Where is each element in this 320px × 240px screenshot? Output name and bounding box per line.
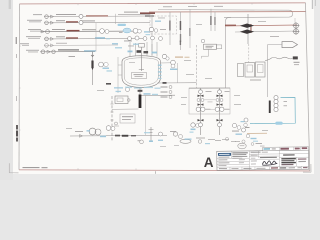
off-page connector arrow — [282, 42, 298, 48]
row2 tag2 — [80, 20, 95, 21]
mid-left dark arrow segment — [91, 61, 93, 68]
signal squiggle right — [265, 57, 293, 60]
dashed drop x196 — [196, 45, 198, 88]
small fitting symbols — [115, 122, 118, 125]
squiggle labels — [294, 62, 300, 63]
pump blue tick — [87, 130, 91, 131]
left border zone text — [16, 37, 17, 44]
vessel top nozzle lines — [130, 42, 157, 57]
mid-left bubble pair — [99, 62, 104, 67]
pump circles — [89, 128, 96, 135]
logo sub text — [218, 157, 229, 158]
title block horizontals — [217, 153, 309, 167]
row1 maroon tag — [86, 15, 108, 16]
scanner streaks top-right — [312, 0, 313, 9]
left label clusters of manifold — [161, 87, 168, 88]
row4 maroon tag — [66, 37, 78, 38]
drain blue dashes — [100, 136, 106, 138]
row3 bubble pair b — [133, 28, 138, 33]
duct link line — [112, 108, 139, 110]
trim mark bottom-left — [9, 163, 19, 173]
row2 label — [56, 20, 65, 21]
red header vertical maroon text — [250, 24, 251, 33]
control box mid — [245, 63, 255, 78]
vessel bottom outlet — [140, 88, 175, 96]
agitator motor — [139, 44, 145, 48]
row3 maroon tag bold — [67, 30, 80, 32]
top manifold tick labels — [163, 5, 172, 8]
train A gauge pair — [197, 99, 200, 102]
small gray marks above vessel — [124, 40, 132, 43]
sample box text — [206, 45, 214, 48]
valve manifold frame — [189, 88, 230, 114]
row4 inlet symbol — [45, 37, 49, 41]
stamp cluster circles — [242, 140, 245, 143]
battery limit ticks — [111, 104, 114, 128]
blue dot under train A — [191, 129, 196, 131]
teal left cluster — [244, 118, 248, 122]
mid-left dark mark — [106, 83, 111, 85]
x170 vertical text — [169, 21, 170, 31]
header line label — [124, 12, 138, 13]
reactor vessel jacket — [122, 56, 161, 88]
doc block right cell — [298, 158, 307, 159]
row3 blue end tags — [144, 31, 150, 32]
control valve dark upper — [242, 24, 253, 27]
bottom scattered instruments — [198, 140, 202, 144]
left margin service labels — [33, 13, 42, 16]
clusters below-left of trains — [173, 132, 177, 136]
nozzle blue tag left — [128, 51, 133, 53]
utility label box — [120, 114, 135, 123]
control valve dark lower — [242, 30, 253, 33]
upper pipe maroon tags — [225, 25, 236, 26]
right red-brown pipe upper — [225, 25, 297, 26]
row1 inline circle — [79, 14, 83, 18]
train B lower bubble — [218, 123, 222, 127]
trim mark bottom-right — [303, 164, 311, 172]
frame left border — [18, 4, 21, 170]
frame bottom border — [19, 170, 310, 171]
border zone ticks — [78, 3, 252, 170]
box drop line — [202, 49, 209, 58]
row1 inlet symbol — [45, 15, 49, 19]
row6 drop arrow — [91, 52, 94, 57]
row2 inlet symbol — [45, 21, 49, 25]
handwheel valve lower — [293, 29, 298, 34]
nozzle bubbles row — [128, 37, 132, 41]
bottom-left note "Avant de commencer" — [23, 167, 40, 168]
control box small — [238, 64, 244, 77]
row3 label — [52, 29, 65, 30]
x180 vertical text segments — [180, 21, 182, 30]
stack side ticks — [284, 100, 288, 103]
train B lower valve — [217, 119, 223, 121]
drain header line — [70, 134, 167, 137]
revision strip maroon texts — [280, 148, 289, 150]
drain inlet symbol — [80, 135, 83, 138]
top gray manifold line with U-return — [158, 10, 293, 89]
frame right border — [306, 3, 310, 171]
row texts left column — [218, 159, 227, 160]
train A valve1 — [198, 95, 204, 97]
row3 blue pill — [118, 24, 127, 26]
drop line x190 — [189, 9, 191, 48]
drop line x152 — [151, 14, 153, 55]
row4 blue tag — [95, 37, 105, 39]
train A rotameter pair — [196, 107, 200, 111]
instrument stack bracket — [269, 101, 271, 114]
side line valve — [163, 82, 167, 84]
upper row small text — [251, 152, 261, 153]
riser at x96 — [95, 23, 97, 52]
reactor inner shell — [124, 58, 158, 85]
right gray pipe lower — [235, 31, 297, 32]
row6 inlet symbols — [41, 50, 45, 54]
bubbles pair y125 — [191, 123, 195, 127]
oval above drain line — [106, 126, 111, 131]
svg-text:A: A — [204, 155, 214, 170]
paper sheet — [13, 0, 314, 174]
package dashed box — [150, 16, 177, 34]
train B gauge pair — [216, 99, 219, 102]
feed line row6 — [40, 51, 95, 53]
train B top bubble — [218, 90, 222, 94]
vent tree — [149, 127, 154, 142]
scanner streak top-left — [9, 0, 11, 9]
drop line x215 — [214, 11, 216, 31]
train B valve2 — [217, 103, 223, 105]
signature scribble — [262, 161, 276, 165]
blue annotation row above — [114, 87, 123, 88]
cluster right of trains — [232, 123, 236, 127]
train A lower valve — [198, 119, 204, 121]
train A line — [200, 88, 202, 135]
valve line down to panel — [248, 44, 250, 63]
doc number label — [283, 154, 295, 155]
bottom row cell texts — [219, 168, 227, 169]
connector lead line — [268, 45, 283, 97]
bubble stack right of vessel — [171, 60, 176, 65]
row3 bubble pair a — [100, 29, 105, 34]
row1 label — [56, 14, 76, 15]
sample box right of vessel — [204, 44, 217, 49]
utility box upper — [115, 96, 128, 104]
small cluster lower-left of A — [140, 140, 144, 144]
scattered small labels — [158, 17, 165, 20]
feed line row3 — [41, 30, 141, 33]
train B rotameter pair — [215, 107, 219, 111]
feed line row4 — [44, 37, 143, 40]
vessel wall blue level marks — [158, 65, 162, 66]
row6 label dark — [58, 49, 79, 50]
blue tags right of vent — [144, 132, 150, 133]
drain valve marks — [115, 135, 120, 137]
feed line row5 — [44, 44, 118, 46]
blue marks cluster above vessel — [112, 43, 118, 45]
row2 inline circle — [79, 21, 83, 25]
bottom margin tick — [154, 171, 157, 174]
header line gray — [118, 13, 151, 15]
gray oval mid-bottom — [180, 139, 191, 143]
inter-train connectors — [204, 100, 216, 110]
drop line x211 — [210, 9, 212, 31]
tan utility line — [247, 132, 267, 134]
logo navy bar — [218, 153, 231, 156]
red header bold tag — [140, 12, 155, 14]
tan line cluster circles — [242, 128, 246, 132]
feed line row2 — [44, 21, 150, 23]
nozzle valve dark left — [137, 50, 142, 53]
title block outer frame — [217, 150, 309, 170]
train A valve2 — [198, 103, 204, 105]
marks above title block — [256, 143, 263, 144]
train A top bubble — [199, 90, 203, 94]
blue oval row3 area — [123, 28, 131, 33]
title block verticals — [230, 150, 302, 170]
nozzle blue tag right — [152, 52, 158, 54]
train A lower bubble — [199, 123, 203, 127]
mid-left drop line — [92, 57, 94, 86]
heavy dark duct bar — [139, 95, 142, 109]
stamp ellipse above title block — [238, 143, 246, 149]
tan cluster blue marks — [251, 138, 257, 139]
row5 inlet symbol — [45, 44, 49, 48]
riser at x115 — [115, 14, 117, 24]
revision strip dividers — [279, 147, 301, 151]
train B line — [219, 88, 221, 135]
package blue tag — [155, 21, 161, 22]
left border dark zone bar — [16, 125, 18, 130]
bubble pair right of dome — [162, 54, 166, 58]
control box right — [256, 62, 266, 77]
drain drop pipe — [145, 96, 147, 136]
drop line x180.5 — [180, 12, 182, 50]
agitator shaft — [139, 47, 144, 71]
blue pill on teal line — [275, 122, 282, 125]
mid row label — [251, 154, 258, 157]
train B valve1 — [217, 95, 223, 97]
drop line x248 top — [247, 14, 249, 44]
tan label row — [175, 57, 183, 58]
doc number block lines — [281, 158, 296, 160]
line bubbles to manifold — [160, 63, 178, 83]
battery limit dashed vertical — [111, 96, 113, 141]
bubble above box — [201, 39, 205, 43]
bottom outlet valve — [138, 90, 143, 92]
utility box port circle — [128, 99, 131, 102]
instrument stack bubbles — [274, 96, 278, 100]
top red-brown header pipe — [149, 11, 306, 13]
row5 label — [56, 42, 67, 45]
teal signal loop — [250, 98, 295, 124]
blue tag under bubbles — [170, 69, 178, 71]
jacket feed pipe — [118, 57, 122, 93]
bottom outlet blue tags — [144, 93, 151, 95]
row2 maroon tag — [66, 21, 78, 22]
manifold top header — [189, 87, 230, 89]
mid-left blue tags — [103, 68, 110, 69]
vessel bottom-left bubble — [126, 88, 130, 92]
bottom small text row — [196, 138, 205, 139]
feed line row1 — [44, 15, 150, 18]
title block revision strip top-right — [263, 147, 309, 151]
stub to handwheel — [294, 18, 296, 23]
vessel side line to right — [158, 82, 197, 84]
handwheel valve upper — [293, 23, 298, 28]
vessel tag box — [132, 73, 147, 79]
bubbles near x152 drop — [149, 27, 153, 31]
frame top border — [20, 3, 306, 4]
vent tree blue tip — [149, 140, 153, 142]
drawing title text — [260, 157, 277, 158]
train labels — [206, 90, 212, 93]
revision strip teal text — [264, 148, 271, 150]
row6 blue tag — [84, 50, 96, 51]
row3 inlet symbol — [41, 30, 45, 33]
mid-left label — [69, 56, 76, 57]
drain end cluster — [159, 132, 163, 136]
drop line x170 — [169, 12, 171, 45]
row4 label — [56, 36, 65, 37]
control box caption — [250, 80, 261, 81]
squiggle dark blob — [293, 56, 298, 59]
row3 tag2 — [82, 29, 96, 30]
company text lines — [232, 152, 248, 153]
nozzle valve dark right — [144, 51, 149, 53]
